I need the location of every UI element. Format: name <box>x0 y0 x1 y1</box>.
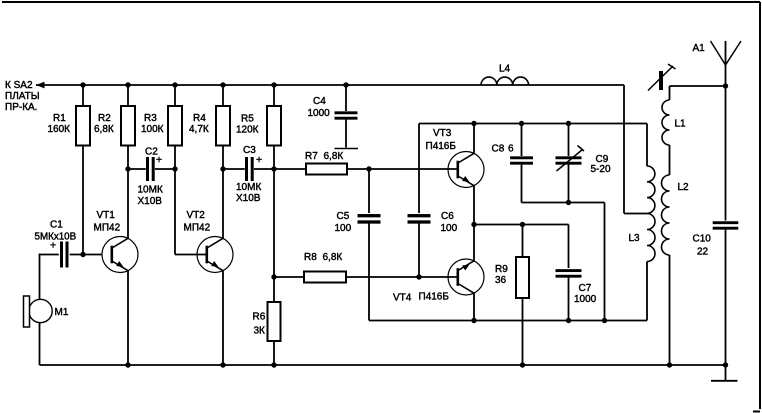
capacitor C3 <box>223 157 274 181</box>
svg-text:5-20: 5-20 <box>591 164 611 175</box>
svg-text:160К: 160К <box>48 124 71 135</box>
wire C8 C9 bottom <box>522 203 605 321</box>
svg-text:100: 100 <box>335 223 352 234</box>
resistor R9 <box>516 225 529 366</box>
svg-text:R3: R3 <box>144 113 157 124</box>
label VT2 <box>184 210 211 234</box>
inductor L2 <box>662 175 670 255</box>
svg-text:A1: A1 <box>693 43 706 54</box>
svg-text:VT1: VT1 <box>97 210 116 221</box>
capacitor C6 <box>408 124 431 278</box>
label C2 <box>138 146 163 207</box>
junction C2 right <box>172 166 177 171</box>
capacitor C5 <box>358 169 381 321</box>
label R8 <box>304 252 342 263</box>
svg-text:1000: 1000 <box>308 108 331 119</box>
transistor VT1 МП42 <box>102 237 138 273</box>
svg-text:C1: C1 <box>50 219 63 230</box>
wire top supply rail <box>36 84 624 86</box>
label R4 <box>189 113 209 135</box>
wire VT3 emitter to VT4 <box>473 185 475 261</box>
label C10 <box>693 233 712 257</box>
svg-text:МП42: МП42 <box>184 222 211 233</box>
inductor L1 <box>662 100 670 145</box>
junction R9 top <box>520 222 525 227</box>
resistor R8 6,8К <box>274 272 457 283</box>
resistor R3 <box>168 85 182 169</box>
capacitor C1 <box>39 242 102 268</box>
svg-text:R6: R6 <box>253 311 266 322</box>
svg-text:МП42: МП42 <box>94 222 121 233</box>
svg-text:П416Б: П416Б <box>419 291 450 302</box>
svg-text:ПЛАТЫ: ПЛАТЫ <box>5 91 40 102</box>
capacitor C9 trimmer <box>556 124 585 203</box>
label L3 <box>629 233 641 244</box>
svg-text:R1: R1 <box>53 113 66 124</box>
label VT3 <box>426 128 457 152</box>
junction R1 base VT1 <box>80 252 85 257</box>
label M1 <box>55 307 69 318</box>
svg-text:R5: R5 <box>241 113 254 124</box>
wire VT3 collector <box>473 124 475 154</box>
capacitor C2 <box>128 157 175 181</box>
label VT1 <box>94 210 121 234</box>
arrow to SA2 <box>36 82 45 89</box>
label L2 <box>678 182 690 193</box>
svg-text:C3: C3 <box>243 145 256 156</box>
junction C9 bottom <box>566 200 571 205</box>
transistor VT3 П416Б <box>448 152 484 188</box>
junction antenna <box>723 83 728 88</box>
junction emitters <box>471 222 476 227</box>
wire VT2 collector <box>222 169 224 239</box>
svg-text:VT2: VT2 <box>187 210 206 221</box>
border top <box>2 1 760 3</box>
resistor R2 <box>121 85 135 169</box>
inductor L4 <box>481 77 529 85</box>
label R2 <box>94 113 114 135</box>
svg-text:6,8К: 6,8К <box>323 252 343 263</box>
svg-text:100: 100 <box>441 223 458 234</box>
svg-text:R8: R8 <box>304 252 317 263</box>
svg-text:C4: C4 <box>313 96 326 107</box>
junction L2 rail <box>667 362 672 367</box>
svg-text:R2: R2 <box>98 113 111 124</box>
label C1 <box>35 219 77 251</box>
junction R9 rail <box>520 362 525 367</box>
wire VT4 collector <box>473 293 475 321</box>
svg-text:+: + <box>50 240 56 252</box>
capacitor C8 <box>510 124 533 203</box>
svg-text:L1: L1 <box>675 118 687 129</box>
wire VT4 collector rail <box>369 320 647 322</box>
wire mic to ground rail <box>39 322 41 365</box>
svg-text:VT3: VT3 <box>433 128 452 139</box>
svg-text:6: 6 <box>508 143 514 154</box>
junction C3 right <box>271 166 276 171</box>
label C4 <box>308 96 331 119</box>
label R7 <box>305 151 343 162</box>
label C6 <box>441 211 458 234</box>
svg-text:+: + <box>256 154 262 166</box>
resistor R4 <box>216 85 230 169</box>
junction C7 bottom <box>566 318 571 323</box>
junction C6 VT4 base <box>416 274 421 279</box>
label R9 <box>495 264 508 286</box>
svg-text:C5: C5 <box>337 211 350 222</box>
wire R5 node down <box>273 169 275 277</box>
wire emitter node <box>474 224 569 226</box>
label C7 <box>574 283 597 305</box>
resistor R1 <box>76 85 90 255</box>
svg-text:ПР-КА.: ПР-КА. <box>5 102 37 113</box>
svg-text:10МК: 10МК <box>236 182 261 193</box>
svg-text:L4: L4 <box>499 63 511 74</box>
label C9 <box>591 154 611 175</box>
label L1 <box>675 118 687 129</box>
svg-text:4,7К: 4,7К <box>189 124 209 135</box>
wire node to VT2 base <box>175 169 206 255</box>
ground symbol <box>711 365 738 381</box>
microphone M1 <box>24 296 53 327</box>
wire oscillator top <box>419 123 647 125</box>
junction R6 rail <box>271 362 276 367</box>
svg-text:C6: C6 <box>441 211 454 222</box>
svg-text:100К: 100К <box>141 124 164 135</box>
label R1 <box>48 113 71 135</box>
wire L1 to L2 <box>669 145 671 175</box>
resistor R6 <box>268 277 281 365</box>
svg-text:R4: R4 <box>193 113 206 124</box>
svg-text:3К: 3К <box>254 325 266 336</box>
svg-text:L2: L2 <box>678 182 690 193</box>
junction C2 left <box>125 166 130 171</box>
svg-text:П416Б: П416Б <box>426 141 457 152</box>
resistor R5 <box>267 85 281 169</box>
capacitor C7 <box>556 225 582 321</box>
wire VT2 emitter <box>222 270 224 365</box>
capacitor C4 <box>335 85 358 148</box>
svg-text:Х10В: Х10В <box>236 193 261 204</box>
junction rail R2 <box>125 82 130 87</box>
svg-text:6,8К: 6,8К <box>94 124 114 135</box>
label R5 <box>236 113 259 135</box>
junction rail C4 <box>343 82 348 87</box>
label R3 <box>141 113 164 135</box>
junction rail R3 <box>172 82 177 87</box>
svg-text:10МК: 10МК <box>138 184 163 195</box>
svg-text:C7: C7 <box>579 283 592 294</box>
label R6 <box>253 311 266 336</box>
junction VT3 base node <box>366 166 371 171</box>
trimmer core <box>648 64 676 91</box>
junction VT4 collector <box>471 318 476 323</box>
border right <box>753 2 760 412</box>
label A1 <box>693 43 706 54</box>
label L4 <box>499 63 511 74</box>
junction rail R1 <box>80 82 85 87</box>
wire rail to L3 tap <box>624 85 647 214</box>
node К SA2 label <box>5 80 40 113</box>
transistor VT4 П416Б <box>448 259 484 295</box>
junction C9 top <box>566 121 571 126</box>
wire L2 to rail <box>669 255 671 365</box>
junction rail R4 <box>220 82 225 87</box>
svg-text:M1: M1 <box>55 307 69 318</box>
junction rail end <box>723 362 728 367</box>
inductor L3 <box>647 124 655 321</box>
svg-text:L3: L3 <box>629 233 641 244</box>
svg-text:R9: R9 <box>495 264 508 275</box>
svg-text:36: 36 <box>495 275 507 286</box>
svg-text:120К: 120К <box>236 124 259 135</box>
svg-text:+: + <box>156 154 162 166</box>
wire VT1 emitter <box>127 270 129 365</box>
svg-text:Х10В: Х10В <box>138 196 163 207</box>
transistor VT2 МП42 <box>197 237 233 273</box>
junction R8 input <box>271 274 276 279</box>
svg-text:VT4: VT4 <box>393 292 412 303</box>
capacitor C10 <box>713 86 739 365</box>
label C8 <box>492 143 515 154</box>
label C5 <box>335 211 352 234</box>
antenna A1 <box>711 41 742 86</box>
svg-text:6,8К: 6,8К <box>324 151 344 162</box>
svg-text:К SA2: К SA2 <box>5 80 33 91</box>
svg-text:22: 22 <box>697 246 709 257</box>
junction tank bottom corner <box>602 318 607 323</box>
junction VT2 emitter rail <box>220 362 225 367</box>
svg-text:R7: R7 <box>305 151 318 162</box>
ground under C4 <box>335 148 359 150</box>
resistor R7 6,8К <box>274 164 457 175</box>
wire ground rail <box>40 364 726 366</box>
wire VT1 collector <box>127 169 129 239</box>
junction VT3 collector <box>471 121 476 126</box>
label VT4 <box>393 291 449 303</box>
wire C1 to mic <box>39 254 41 300</box>
svg-text:C8: C8 <box>492 143 505 154</box>
junction C3 left <box>220 166 225 171</box>
svg-text:C10: C10 <box>693 233 712 244</box>
wire antenna branch <box>670 86 726 100</box>
junction C8 top <box>519 121 524 126</box>
label C3 <box>236 145 262 204</box>
junction VT1 emitter rail <box>125 362 130 367</box>
svg-text:1000: 1000 <box>574 294 597 305</box>
junction rail R5 <box>271 82 276 87</box>
